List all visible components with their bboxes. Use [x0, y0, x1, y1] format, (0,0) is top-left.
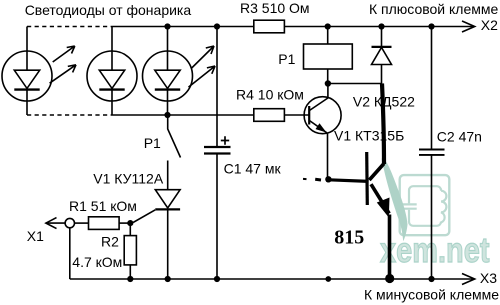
svg-text:X2: X2 — [481, 17, 498, 33]
svg-text:V1 КУ112А: V1 КУ112А — [93, 171, 164, 187]
svg-text:Р1: Р1 — [278, 51, 295, 67]
svg-text:xem.net: xem.net — [380, 231, 490, 270]
svg-text:X1: X1 — [27, 228, 44, 244]
svg-text:X3: X3 — [480, 270, 497, 286]
svg-text:V2 КД522: V2 КД522 — [353, 93, 415, 109]
svg-text:R3 510 Ом: R3 510 Ом — [240, 0, 310, 16]
svg-text:Светодиоды от фонарика: Светодиоды от фонарика — [25, 2, 192, 18]
svg-text:С1 47 мк: С1 47 мк — [224, 161, 282, 177]
svg-text:R4 10 кОм: R4 10 кОм — [236, 87, 304, 103]
svg-text:R2: R2 — [101, 233, 119, 249]
svg-text:К минусовой клемме: К минусовой клемме — [364, 286, 499, 302]
svg-text:4.7 кОм: 4.7 кОм — [72, 254, 122, 270]
svg-text:C2 47n: C2 47n — [437, 128, 482, 144]
svg-text:V1 КТ315Б: V1 КТ315Б — [334, 127, 404, 143]
svg-text:К плюсовой клемме: К плюсовой клемме — [369, 1, 499, 17]
svg-text:Р1: Р1 — [144, 135, 161, 151]
svg-text:815: 815 — [334, 227, 364, 249]
svg-text:R1 51 кОм: R1 51 кОм — [69, 198, 137, 214]
